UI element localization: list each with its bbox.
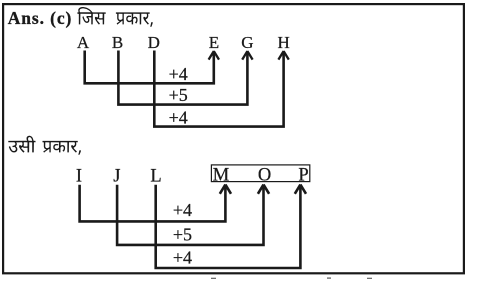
faint print artifacts below border	[211, 277, 372, 279]
hindi text "उसी प्रकार,"	[8, 136, 35, 153]
svg-text:A: A	[77, 33, 90, 52]
hindi text "जिस प्रकार,"	[77, 7, 105, 25]
svg-text:Ans. (c): Ans. (c)	[8, 8, 73, 28]
svg-text:L: L	[150, 166, 161, 186]
svg-text:+4: +4	[169, 64, 188, 84]
svg-text:M: M	[213, 166, 229, 186]
arrow into E	[209, 51, 219, 60]
svg-text:+4: +4	[173, 200, 192, 220]
svg-text:H: H	[277, 33, 289, 52]
svg-text:+5: +5	[173, 225, 192, 245]
svg-text:I: I	[76, 166, 82, 186]
svg-text:P: P	[298, 166, 308, 186]
svg-text:+4: +4	[173, 248, 192, 268]
svg-text:D: D	[148, 33, 160, 52]
wire B to G	[118, 51, 247, 105]
svg-text:+4: +4	[169, 107, 188, 127]
svg-text:B: B	[112, 33, 123, 52]
svg-text:+5: +5	[169, 85, 188, 105]
wire I to M	[80, 185, 226, 222]
arrow into G	[242, 51, 252, 60]
arrow into P	[295, 185, 306, 194]
arrow into H	[278, 51, 288, 60]
wire J to O	[117, 185, 263, 245]
svg-text:E: E	[209, 33, 219, 52]
svg-text:J: J	[113, 166, 120, 186]
arrow into O	[258, 185, 269, 194]
wire L to P	[156, 185, 301, 268]
box around M O P	[211, 165, 309, 182]
svg-text:O: O	[258, 166, 271, 186]
svg-text:G: G	[241, 33, 253, 52]
wire A to E	[85, 51, 214, 84]
arrow into M	[220, 185, 231, 194]
wire D to H	[154, 51, 283, 127]
